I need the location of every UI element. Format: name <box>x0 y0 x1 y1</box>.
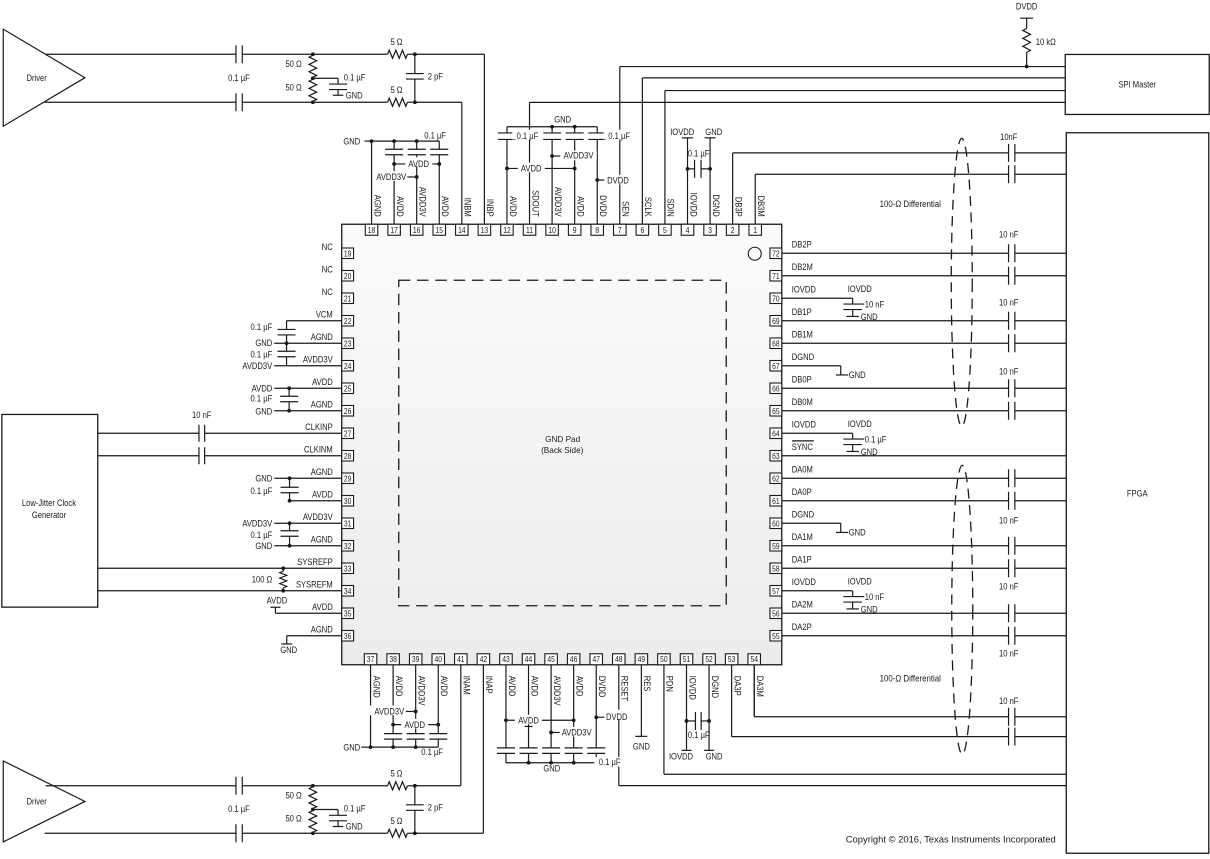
svg-text:PDN: PDN <box>665 676 675 692</box>
svg-text:71: 71 <box>772 272 780 281</box>
svg-text:NC: NC <box>322 242 333 252</box>
svg-text:AVDD3V: AVDD3V <box>564 151 594 161</box>
svg-text:DA0M: DA0M <box>792 464 813 474</box>
svg-text:44: 44 <box>525 655 533 664</box>
svg-text:10 nF: 10 nF <box>999 581 1019 591</box>
svg-text:AVDD: AVDD <box>312 377 333 387</box>
svg-text:AGND: AGND <box>311 467 333 477</box>
svg-text:AGND: AGND <box>311 399 333 409</box>
svg-text:AVDD: AVDD <box>507 676 517 697</box>
svg-text:24: 24 <box>344 362 352 371</box>
svg-text:14: 14 <box>458 226 466 235</box>
svg-text:AVDD3V: AVDD3V <box>416 676 426 706</box>
svg-text:AVDD3V: AVDD3V <box>562 728 592 738</box>
svg-text:IOVDD: IOVDD <box>687 676 697 701</box>
svg-text:34: 34 <box>344 587 352 596</box>
svg-text:AVDD: AVDD <box>521 164 542 174</box>
svg-text:DB2P: DB2P <box>792 239 812 249</box>
svg-text:0.1 µF: 0.1 µF <box>688 149 710 159</box>
svg-text:69: 69 <box>772 317 780 326</box>
svg-text:GND Pad: GND Pad <box>545 435 580 444</box>
svg-text:IOVDD: IOVDD <box>848 419 873 429</box>
svg-text:8: 8 <box>595 226 599 235</box>
svg-text:SEN: SEN <box>621 201 631 217</box>
svg-text:INAM: INAM <box>462 676 472 695</box>
svg-text:DB0P: DB0P <box>792 374 812 384</box>
svg-text:GND: GND <box>343 743 360 753</box>
svg-text:AVDD: AVDD <box>529 676 539 697</box>
svg-text:66: 66 <box>772 384 780 393</box>
svg-text:54: 54 <box>750 655 758 664</box>
svg-text:10 nF: 10 nF <box>865 592 885 602</box>
svg-text:56: 56 <box>772 609 780 618</box>
svg-text:RES: RES <box>642 676 652 692</box>
svg-text:GND: GND <box>346 822 363 832</box>
svg-text:DA2M: DA2M <box>792 599 813 609</box>
svg-text:IOVDD: IOVDD <box>848 576 873 586</box>
svg-text:AVDD: AVDD <box>408 159 429 169</box>
svg-text:0.1 µF: 0.1 µF <box>251 530 273 540</box>
svg-text:DGND: DGND <box>792 509 815 519</box>
svg-text:Driver: Driver <box>27 797 47 807</box>
svg-text:AVDD3V: AVDD3V <box>242 518 272 528</box>
svg-text:DVDD: DVDD <box>606 712 628 722</box>
svg-text:RESET: RESET <box>620 676 630 702</box>
svg-text:SYSREFP: SYSREFP <box>297 557 333 567</box>
svg-text:AGND: AGND <box>311 534 333 544</box>
svg-text:0.1 µF: 0.1 µF <box>688 730 710 740</box>
svg-text:10: 10 <box>548 226 556 235</box>
svg-text:45: 45 <box>547 655 555 664</box>
svg-text:AVDD3V: AVDD3V <box>417 187 427 217</box>
svg-text:DB1M: DB1M <box>792 329 813 339</box>
svg-text:IOVDD: IOVDD <box>792 577 817 587</box>
svg-text:0.1 µF: 0.1 µF <box>228 73 250 83</box>
svg-text:NC: NC <box>322 264 333 274</box>
svg-text:100-Ω Differential: 100-Ω Differential <box>880 673 941 683</box>
svg-text:50 Ω: 50 Ω <box>285 814 302 824</box>
svg-text:38: 38 <box>389 655 397 664</box>
svg-text:5 Ω: 5 Ω <box>390 85 402 95</box>
svg-text:Low-Jitter Clock: Low-Jitter Clock <box>22 498 77 508</box>
svg-text:25: 25 <box>344 384 352 393</box>
svg-text:GND: GND <box>255 541 272 551</box>
svg-text:57: 57 <box>772 587 780 596</box>
svg-text:DGND: DGND <box>792 352 815 362</box>
svg-text:AVDD: AVDD <box>518 716 539 726</box>
svg-text:0.1 µF: 0.1 µF <box>251 486 273 496</box>
svg-text:0.1 µF: 0.1 µF <box>421 747 443 757</box>
svg-text:51: 51 <box>683 655 691 664</box>
svg-text:100-Ω Differential: 100-Ω Differential <box>880 199 941 209</box>
svg-text:33: 33 <box>344 564 352 573</box>
svg-text:GND: GND <box>705 127 722 137</box>
svg-text:22: 22 <box>344 317 352 326</box>
svg-text:70: 70 <box>772 294 780 303</box>
svg-text:47: 47 <box>592 655 600 664</box>
svg-text:4: 4 <box>686 226 690 235</box>
svg-text:CLKINM: CLKINM <box>304 444 333 454</box>
svg-text:GND: GND <box>554 115 571 125</box>
svg-text:10 nF: 10 nF <box>999 229 1019 239</box>
svg-text:12: 12 <box>503 226 511 235</box>
svg-text:0.1 µF: 0.1 µF <box>344 72 366 82</box>
svg-text:0.1 µF: 0.1 µF <box>424 131 446 141</box>
svg-text:DGND: DGND <box>710 676 720 699</box>
svg-text:GND: GND <box>255 406 272 416</box>
svg-text:GND: GND <box>861 312 878 322</box>
svg-text:11: 11 <box>526 226 533 235</box>
svg-text:53: 53 <box>728 655 736 664</box>
svg-text:DB2M: DB2M <box>792 262 813 272</box>
svg-text:DA1M: DA1M <box>792 532 813 542</box>
svg-text:50: 50 <box>660 655 668 664</box>
svg-text:41: 41 <box>457 655 465 664</box>
svg-text:13: 13 <box>481 226 489 235</box>
svg-text:61: 61 <box>772 497 780 506</box>
svg-text:GND: GND <box>861 604 878 614</box>
svg-text:SPI Master: SPI Master <box>1118 79 1156 89</box>
svg-text:0.1 µF: 0.1 µF <box>599 757 621 767</box>
svg-text:DB0M: DB0M <box>792 397 813 407</box>
svg-text:10 nF: 10 nF <box>192 410 212 420</box>
svg-text:AGND: AGND <box>311 624 333 634</box>
svg-text:10 nF: 10 nF <box>999 366 1019 376</box>
svg-text:Driver: Driver <box>27 73 47 83</box>
svg-text:AGND: AGND <box>311 332 333 342</box>
svg-text:AVDD3V: AVDD3V <box>552 676 562 706</box>
svg-text:AVDD3V: AVDD3V <box>376 172 406 182</box>
svg-text:CLKINP: CLKINP <box>305 422 333 432</box>
svg-text:23: 23 <box>344 339 352 348</box>
svg-text:IOVDD: IOVDD <box>670 127 695 137</box>
svg-text:AVDD: AVDD <box>404 720 425 730</box>
svg-text:0.1 µF: 0.1 µF <box>517 131 539 141</box>
svg-text:DVDD: DVDD <box>607 175 629 185</box>
svg-text:20: 20 <box>344 272 352 281</box>
svg-text:49: 49 <box>638 655 646 664</box>
svg-text:Generator: Generator <box>32 510 66 520</box>
svg-text:68: 68 <box>772 339 780 348</box>
svg-text:INBM: INBM <box>463 198 473 217</box>
svg-text:37: 37 <box>367 655 375 664</box>
svg-text:GND: GND <box>849 370 866 380</box>
svg-text:65: 65 <box>772 407 780 416</box>
svg-text:GND: GND <box>346 90 363 100</box>
svg-text:5 Ω: 5 Ω <box>390 37 402 47</box>
svg-text:DA2P: DA2P <box>792 622 812 632</box>
svg-text:GND: GND <box>849 528 866 538</box>
svg-text:IOVDD: IOVDD <box>792 419 817 429</box>
svg-text:AGND: AGND <box>372 195 382 217</box>
svg-text:7: 7 <box>618 226 622 235</box>
svg-text:Copyright © 2016, Texas Instru: Copyright © 2016, Texas Instruments Inco… <box>846 834 1056 845</box>
svg-text:AVDD: AVDD <box>439 676 449 697</box>
svg-text:AVDD: AVDD <box>252 383 273 393</box>
svg-text:IOVDD: IOVDD <box>848 284 873 294</box>
svg-text:16: 16 <box>413 226 421 235</box>
svg-text:67: 67 <box>772 362 780 371</box>
svg-text:0.1 µF: 0.1 µF <box>251 394 273 404</box>
svg-text:27: 27 <box>344 429 352 438</box>
svg-text:10 nF: 10 nF <box>999 696 1019 706</box>
svg-text:50 Ω: 50 Ω <box>285 59 302 69</box>
svg-text:DA3M: DA3M <box>755 676 765 697</box>
svg-text:SYNC: SYNC <box>792 442 814 452</box>
svg-text:58: 58 <box>772 564 780 573</box>
svg-text:AVDD: AVDD <box>440 196 450 217</box>
svg-text:2 pF: 2 pF <box>428 71 444 81</box>
svg-text:30: 30 <box>344 497 352 506</box>
svg-text:52: 52 <box>705 655 713 664</box>
svg-text:59: 59 <box>772 542 780 551</box>
svg-text:100 Ω: 100 Ω <box>252 575 273 585</box>
svg-text:10 nF: 10 nF <box>999 515 1019 525</box>
svg-text:10 nF: 10 nF <box>999 297 1019 307</box>
svg-text:IOVDD: IOVDD <box>792 284 817 294</box>
svg-text:32: 32 <box>344 542 352 551</box>
svg-text:AVDD: AVDD <box>312 489 333 499</box>
svg-text:INBP: INBP <box>485 199 495 217</box>
svg-text:39: 39 <box>412 655 420 664</box>
svg-text:0.1 µF: 0.1 µF <box>228 804 250 814</box>
svg-text:AVDD3V: AVDD3V <box>242 361 272 371</box>
svg-text:42: 42 <box>480 655 488 664</box>
svg-text:0.1 µF: 0.1 µF <box>344 804 366 814</box>
svg-text:GND: GND <box>343 137 360 147</box>
svg-text:INAP: INAP <box>484 676 494 694</box>
svg-text:10nF: 10nF <box>1000 132 1018 142</box>
svg-text:DVDD: DVDD <box>598 195 608 217</box>
svg-text:10 kΩ: 10 kΩ <box>1036 37 1056 47</box>
svg-text:DVDD: DVDD <box>1016 2 1038 12</box>
svg-text:AVDD: AVDD <box>267 596 288 606</box>
svg-text:AVDD3V: AVDD3V <box>303 512 333 522</box>
svg-text:GND: GND <box>706 751 723 761</box>
svg-text:6: 6 <box>640 226 644 235</box>
svg-text:AVDD: AVDD <box>312 602 333 612</box>
svg-text:AVDD3V: AVDD3V <box>374 707 404 717</box>
svg-text:60: 60 <box>772 519 780 528</box>
svg-text:21: 21 <box>344 294 352 303</box>
svg-text:5 Ω: 5 Ω <box>390 816 402 826</box>
svg-text:46: 46 <box>570 655 578 664</box>
svg-text:SYSREFM: SYSREFM <box>296 579 333 589</box>
svg-text:GND: GND <box>255 473 272 483</box>
svg-text:48: 48 <box>615 655 623 664</box>
svg-text:35: 35 <box>344 609 352 618</box>
svg-text:10 nF: 10 nF <box>865 299 885 309</box>
svg-text:IOVDD: IOVDD <box>669 751 694 761</box>
svg-text:AVDD: AVDD <box>395 196 405 217</box>
svg-text:AVDD: AVDD <box>508 196 518 217</box>
svg-text:0.1 µF: 0.1 µF <box>865 434 887 444</box>
svg-text:AVDD: AVDD <box>575 196 585 217</box>
svg-text:DB3P: DB3P <box>733 197 743 217</box>
svg-text:DB1P: DB1P <box>792 307 812 317</box>
svg-text:0.1 µF: 0.1 µF <box>608 131 630 141</box>
svg-text:10 nF: 10 nF <box>999 649 1019 659</box>
svg-text:IOVDD: IOVDD <box>688 193 698 218</box>
svg-text:9: 9 <box>573 226 577 235</box>
svg-text:64: 64 <box>772 429 780 438</box>
svg-text:FPGA: FPGA <box>1127 488 1148 498</box>
svg-text:GND: GND <box>543 764 560 774</box>
svg-text:DVDD: DVDD <box>597 676 607 698</box>
svg-text:2 pF: 2 pF <box>428 803 444 813</box>
svg-text:DGND: DGND <box>711 194 721 217</box>
svg-text:(Back Side): (Back Side) <box>541 446 584 455</box>
svg-text:5: 5 <box>663 226 667 235</box>
svg-text:GND: GND <box>861 447 878 457</box>
svg-text:1: 1 <box>753 226 757 235</box>
svg-text:DA1P: DA1P <box>792 554 812 564</box>
svg-text:DB3M: DB3M <box>756 196 766 217</box>
svg-text:15: 15 <box>436 226 444 235</box>
svg-text:0.1 µF: 0.1 µF <box>251 350 273 360</box>
svg-text:50 Ω: 50 Ω <box>285 82 302 92</box>
svg-text:29: 29 <box>344 474 352 483</box>
svg-text:AVDD: AVDD <box>574 676 584 697</box>
svg-text:17: 17 <box>390 226 398 235</box>
svg-text:GND: GND <box>280 645 297 655</box>
svg-text:SDOUT: SDOUT <box>530 190 540 217</box>
svg-text:43: 43 <box>502 655 510 664</box>
svg-text:0.1 µF: 0.1 µF <box>251 322 273 332</box>
svg-text:62: 62 <box>772 474 780 483</box>
svg-text:DA3P: DA3P <box>732 676 742 696</box>
svg-text:18: 18 <box>368 226 376 235</box>
svg-text:GND: GND <box>255 338 272 348</box>
svg-text:63: 63 <box>772 452 780 461</box>
svg-text:31: 31 <box>344 519 352 528</box>
svg-text:SDIN: SDIN <box>666 199 676 217</box>
svg-text:28: 28 <box>344 452 352 461</box>
svg-text:AVDD: AVDD <box>394 676 404 697</box>
svg-text:55: 55 <box>772 632 780 641</box>
svg-text:36: 36 <box>344 632 352 641</box>
svg-text:VCM: VCM <box>316 309 333 319</box>
svg-text:GND: GND <box>633 742 650 752</box>
svg-text:5 Ω: 5 Ω <box>390 769 402 779</box>
svg-text:AGND: AGND <box>371 676 381 698</box>
svg-text:AVDD3V: AVDD3V <box>553 187 563 217</box>
svg-text:40: 40 <box>435 655 443 664</box>
svg-text:NC: NC <box>322 287 333 297</box>
svg-text:26: 26 <box>344 407 352 416</box>
svg-text:72: 72 <box>772 249 780 258</box>
svg-text:SCLK: SCLK <box>643 197 653 217</box>
svg-text:19: 19 <box>344 249 352 258</box>
svg-text:2: 2 <box>731 226 735 235</box>
svg-text:DA0P: DA0P <box>792 487 812 497</box>
svg-text:AVDD3V: AVDD3V <box>303 354 333 364</box>
svg-text:50 Ω: 50 Ω <box>285 790 302 800</box>
svg-text:3: 3 <box>708 226 712 235</box>
